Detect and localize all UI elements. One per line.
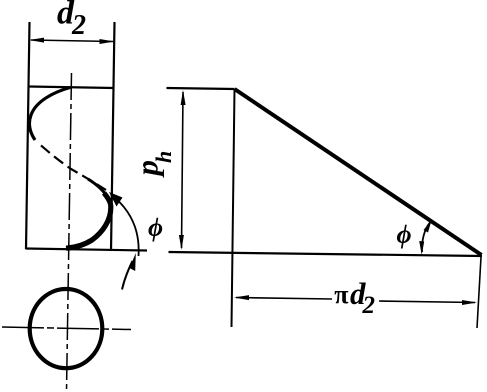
- svg-text:2: 2: [71, 10, 86, 41]
- wire: cylinder bottom edge extended right: [26, 249, 148, 251]
- svg-text:2: 2: [362, 292, 376, 319]
- dimension d2 line with arrows: [31, 40, 113, 42]
- dimension pi d2 line with arrows: [236, 298, 332, 300]
- svg-text:ϕ: ϕ: [397, 220, 412, 249]
- circle: top view of cylinder: [30, 289, 103, 368]
- phi rotation arc (left figure): [111, 195, 139, 256]
- wire: left cylinder left edge / extension line: [26, 22, 30, 249]
- centerline: vertical axis of cylinder and circle: [67, 73, 72, 391]
- svg-text:h: h: [151, 151, 176, 163]
- triangle hypotenuse: [235, 89, 482, 255]
- wire: left cylinder right edge / extension line: [111, 22, 115, 251]
- triangle baseline: [169, 252, 483, 256]
- triangle top edge: [167, 88, 235, 89]
- angle arc phi (right) with arrows: [422, 223, 430, 253]
- svg-text:π: π: [334, 280, 348, 309]
- label p_h (rotated): [130, 151, 177, 179]
- dimension p_h line with arrows: [182, 92, 184, 248]
- helix front visible upper curve: [29, 88, 70, 141]
- phi unrolling arrow below baseline (left figure): [122, 261, 133, 290]
- svg-text:ϕ: ϕ: [148, 213, 163, 242]
- wire: cylinder top edge: [29, 87, 114, 89]
- helix hidden back curve (dashed): [41, 146, 106, 191]
- triangle left vertical edge + extension: [232, 89, 235, 327]
- extension line right for pi d2: [477, 257, 481, 328]
- helix front visible lower curve: [88, 179, 108, 198]
- centerline: horizontal axis of circle: [2, 327, 131, 330]
